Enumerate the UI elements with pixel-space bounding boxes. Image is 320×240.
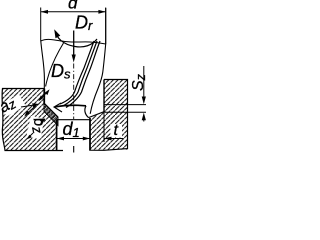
left hole wall d (cut by drill) <box>43 89 45 104</box>
dimension d arrowhead left <box>41 10 48 14</box>
rotation arc Dr <box>56 32 97 47</box>
az second arrow (down-left along band) <box>27 106 36 114</box>
rotation arc arrowhead <box>54 29 60 38</box>
dimension d line <box>41 11 106 13</box>
bz label white box <box>26 116 44 139</box>
dimension d extension line left <box>40 8 42 41</box>
bz arrow lower <box>28 133 33 138</box>
feed arrow <box>73 31 75 57</box>
az label white box <box>0 94 26 116</box>
right lip cut surface slant <box>89 112 105 118</box>
workpiece left block outline <box>2 89 63 151</box>
d1 dimension line <box>57 138 90 140</box>
d1 arrowhead left <box>57 137 64 141</box>
flute line 2 <box>63 41 97 106</box>
Sz extension line lower <box>104 111 146 113</box>
workpiece left block (hatched) <box>2 89 58 151</box>
Sz extension line upper <box>104 104 146 106</box>
left chamfer cone surface <box>44 103 58 117</box>
chip cross-section parallelogram (fine hatch) <box>44 103 58 126</box>
right hole wall d <box>103 80 105 112</box>
Sz upper arrow <box>143 66 145 97</box>
d1 hole left wall <box>56 120 58 151</box>
t extension line <box>103 113 105 142</box>
drill body right silhouette <box>90 8 106 114</box>
flute line 1 <box>60 41 94 104</box>
drill top break line <box>41 39 106 44</box>
t label white box <box>111 124 123 138</box>
feed arrowhead <box>72 55 76 63</box>
svg-text:t: t <box>114 122 119 139</box>
az leader arrow <box>21 105 34 107</box>
drill body left silhouette <box>41 40 45 89</box>
flute line left <box>46 43 64 87</box>
drill point right hook <box>85 106 89 118</box>
Sz lower arrow <box>143 119 145 122</box>
pre-hole bottom line <box>57 119 90 121</box>
az cross arrow (perpendicular to edge) <box>40 91 48 100</box>
svg-text:d: d <box>68 0 78 13</box>
workpiece right block outline <box>90 80 128 151</box>
dimension d arrowhead right <box>98 10 105 14</box>
drill lip corner facet left <box>54 103 62 112</box>
drill lip edge <box>55 105 86 107</box>
bz arrow upper <box>41 120 45 124</box>
workpiece right block (hatched) <box>90 80 128 150</box>
centerline dash-dot <box>73 64 75 120</box>
flute line 3 <box>66 41 100 108</box>
d1 arrowhead right <box>83 137 90 141</box>
centerline bottom tick <box>73 146 75 153</box>
dimension d extension line right <box>105 8 107 45</box>
t dimension arrow (outside, pointing left) <box>105 138 124 140</box>
d1 hole right wall <box>89 118 91 151</box>
